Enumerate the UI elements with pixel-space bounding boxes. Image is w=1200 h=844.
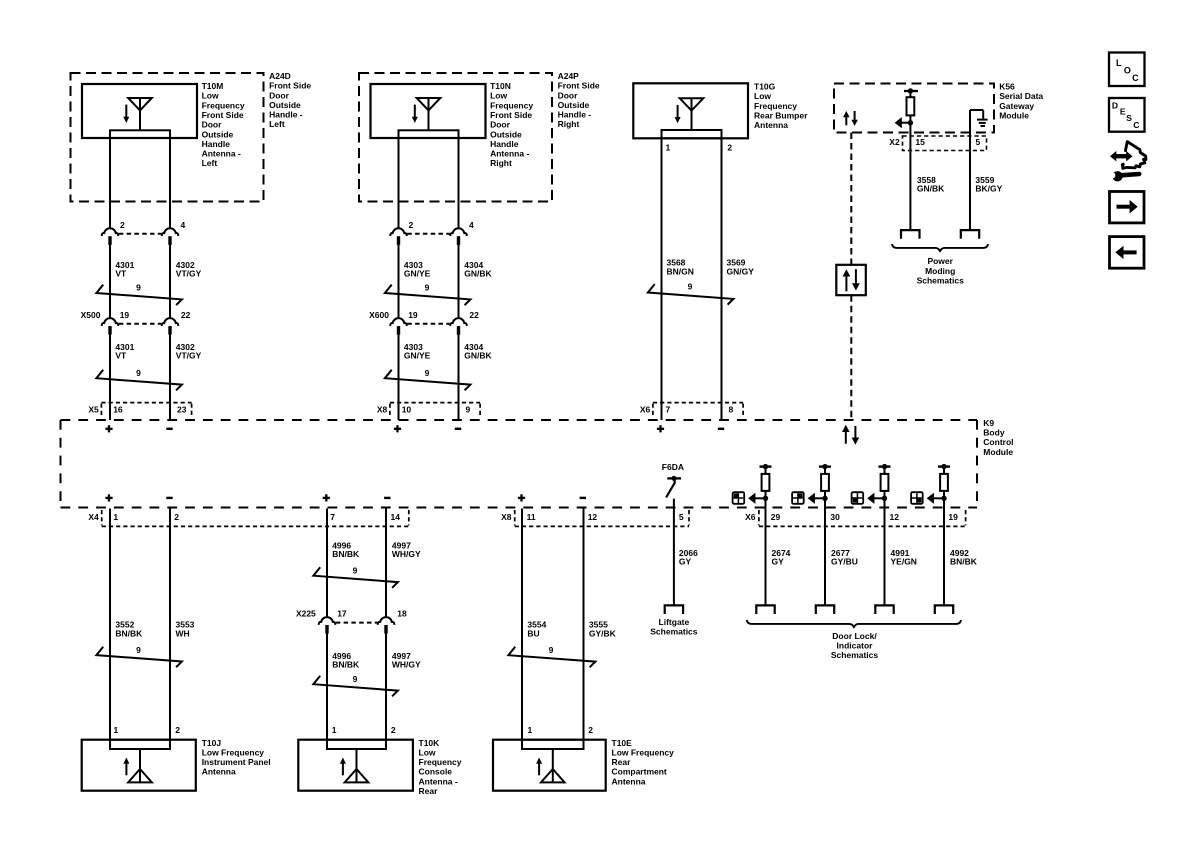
antenna T10E component box [493, 740, 606, 791]
svg-text:Outside: Outside [490, 129, 522, 139]
svg-text:Front Side: Front Side [558, 81, 600, 91]
off-page claw wire 4992 [935, 605, 953, 614]
antenna T10M symbol [128, 98, 152, 131]
svg-text:WH/GY: WH/GY [392, 549, 421, 559]
wire 4304 mid segment [458, 237, 460, 319]
svg-text:Handle -: Handle - [558, 110, 592, 120]
svg-text:1: 1 [666, 142, 671, 152]
svg-text:Door: Door [558, 90, 579, 100]
svg-text:GN/BK: GN/BK [464, 351, 492, 361]
svg-text:GN/YE: GN/YE [404, 269, 431, 279]
antenna T10J component box [82, 740, 196, 791]
wire 4996 upper segment [326, 509, 328, 618]
twisted pair symbol T10J [96, 645, 181, 667]
connector X6 pin box on K9 top [640, 403, 743, 417]
pin labels 1/2 T10J [114, 725, 181, 735]
label A24P [558, 71, 600, 129]
svg-text:23: 23 [177, 404, 187, 414]
wire 3559 label [975, 175, 1002, 194]
svg-text:GN/YE: GN/YE [404, 351, 431, 361]
wire 3569 segment [721, 138, 723, 420]
wire 4301 upper segment [109, 138, 111, 229]
svg-text:BN/BK: BN/BK [332, 660, 360, 670]
antenna T10N connector rect [399, 130, 459, 138]
label T10E [612, 738, 675, 787]
K9 branch arrow 1 [748, 493, 765, 504]
svg-text:2: 2 [120, 220, 125, 230]
svg-text:A24D: A24D [269, 71, 291, 81]
polarity markers X8 bottom [518, 494, 586, 501]
module box A24P dashed outline [359, 73, 552, 202]
svg-text:K9: K9 [983, 418, 994, 428]
antenna T10E connector rect [522, 740, 584, 749]
wire 3568 label [667, 258, 694, 277]
svg-text:GY/BU: GY/BU [831, 557, 858, 567]
polarity + marker [105, 425, 112, 432]
svg-text:Low: Low [490, 91, 507, 101]
polarity markers X4 [105, 494, 390, 501]
svg-text:GN/BK: GN/BK [464, 269, 492, 279]
icon box LOC [1109, 53, 1145, 87]
svg-text:X6: X6 [745, 512, 756, 522]
wire 4304 upper segment [458, 138, 460, 229]
wire 4992 label [950, 548, 978, 567]
brace power moding [892, 244, 988, 251]
svg-text:L: L [1116, 58, 1122, 68]
off-page claw wire 2066 [665, 605, 683, 614]
polarity + marker [394, 425, 401, 432]
K9 branch node bar 4 [938, 464, 950, 469]
svg-text:C: C [1133, 120, 1139, 130]
resistor in K9 branch 1 [762, 467, 770, 491]
svg-text:Front Side: Front Side [490, 110, 532, 120]
svg-text:8: 8 [729, 404, 734, 414]
label T10G [754, 82, 808, 131]
wire 3554 label [527, 620, 546, 639]
connector X600 row pins 19/22 [369, 310, 479, 335]
wire 4304 label [464, 260, 492, 279]
label K56 [999, 82, 1043, 121]
svg-text:VT: VT [115, 269, 127, 279]
svg-text:O: O [1124, 65, 1131, 75]
svg-text:Frequency: Frequency [490, 100, 533, 110]
off-page claw wire 3559 [961, 230, 979, 239]
wire 4997 lower label [392, 651, 421, 670]
connector cavity icon 2 [792, 492, 804, 504]
wire 4301 lower label [115, 342, 134, 361]
antenna T10G component box [633, 83, 748, 138]
svg-text:T10J: T10J [202, 738, 222, 748]
connector X6 pin box bottom [745, 510, 966, 526]
svg-text:Rear: Rear [419, 786, 439, 796]
wire 4302 lower segment [169, 326, 171, 420]
connector X500 row pins 19/22 [81, 310, 191, 335]
svg-text:Handle -: Handle - [269, 110, 303, 120]
wire 4303 label [404, 260, 431, 279]
module K9 dashed outline [61, 420, 978, 508]
svg-text:D: D [1112, 101, 1118, 111]
antenna T10N component box [371, 84, 486, 138]
connector cavity icon 3 [852, 492, 864, 504]
wire 3553 label [176, 620, 195, 639]
K9 branch arrow 2 [808, 493, 825, 504]
K9 branch node bar 1 [760, 464, 772, 469]
svg-text:Antenna -: Antenna - [202, 149, 241, 159]
pin labels 1/2 T10K [332, 725, 396, 735]
wire 4303 lower segment [398, 326, 400, 420]
wire 4997 upper segment [385, 509, 387, 618]
svg-text:2: 2 [727, 142, 732, 152]
connector X225 row pins 17/18 [296, 608, 407, 633]
wire 3553 segment [169, 509, 171, 740]
svg-text:7: 7 [666, 404, 671, 414]
svg-text:22: 22 [469, 310, 479, 320]
twisted pair symbol lower [385, 368, 471, 390]
antenna T10J signal arrow [123, 758, 129, 776]
connector cavity icon 4 [911, 492, 923, 504]
svg-text:BU: BU [527, 628, 539, 638]
wire 4302 upper segment [169, 138, 171, 229]
wire 4303 mid segment [398, 237, 400, 319]
svg-text:9: 9 [425, 283, 430, 293]
svg-text:14: 14 [391, 512, 401, 522]
label T10M [202, 81, 245, 168]
wire 4997 lower segment [385, 625, 387, 739]
svg-text:1: 1 [113, 512, 118, 522]
svg-text:15: 15 [915, 137, 925, 147]
icon box DESC [1109, 98, 1145, 132]
serial data dashed link upper [850, 133, 852, 265]
module K56 dashed box [834, 84, 994, 133]
twisted pair symbol [385, 283, 471, 305]
K9 branch node bar 3 [879, 464, 891, 469]
antenna T10M connector rect [110, 130, 170, 138]
pin labels 2 and 4 [120, 220, 186, 230]
off-page claw wire 4991 [875, 605, 893, 614]
svg-text:10: 10 [402, 404, 412, 414]
breaker F6DA [662, 462, 684, 497]
K9 branch arrow 4 [927, 493, 944, 504]
serial data double arrow at K9 [842, 425, 859, 445]
resistor in K9 branch 2 [821, 467, 829, 491]
svg-text:Outside: Outside [558, 100, 590, 110]
svg-text:22: 22 [181, 310, 191, 320]
connector X4 pin box [88, 510, 408, 526]
svg-text:Left: Left [202, 158, 218, 168]
svg-text:Left: Left [269, 119, 285, 129]
svg-text:9: 9 [549, 645, 554, 655]
svg-text:BN/BK: BN/BK [115, 628, 143, 638]
wire 3569 label [727, 258, 755, 277]
antenna T10M component box [82, 84, 197, 138]
pin labels 1/2 T10E [528, 725, 594, 735]
svg-text:17: 17 [337, 608, 347, 618]
svg-text:Frequency: Frequency [754, 101, 797, 111]
svg-text:BK/GY: BK/GY [975, 184, 1002, 194]
label K9 [983, 418, 1013, 457]
K9 branch node bar 2 [819, 464, 831, 469]
svg-text:Module: Module [999, 110, 1029, 120]
svg-text:T10G: T10G [754, 82, 776, 92]
polarity - marker T10G [718, 428, 724, 430]
label Liftgate Schematics [650, 617, 698, 637]
svg-text:Compartment: Compartment [612, 767, 667, 777]
svg-text:Door: Door [490, 120, 511, 130]
svg-text:X2: X2 [889, 137, 900, 147]
svg-text:11: 11 [527, 512, 536, 522]
svg-text:Low: Low [202, 91, 219, 101]
twisted pair symbol T10K lower [313, 674, 398, 696]
brace door lock [747, 620, 961, 627]
wire 4304 lower segment [458, 326, 460, 420]
antenna T10M signal arrow [123, 105, 129, 123]
svg-text:Door: Door [202, 120, 223, 130]
wire 3552 label [115, 620, 143, 639]
svg-text:Handle: Handle [202, 139, 231, 149]
svg-text:Outside: Outside [202, 129, 234, 139]
svg-text:BN/GN: BN/GN [667, 266, 694, 276]
svg-text:Outside: Outside [269, 100, 301, 110]
svg-text:BN/BK: BN/BK [332, 549, 360, 559]
svg-text:T10K: T10K [419, 738, 441, 748]
wire 3554 segment [521, 509, 523, 740]
svg-text:Serial Data: Serial Data [999, 91, 1043, 101]
svg-text:12: 12 [588, 512, 598, 522]
svg-text:1: 1 [528, 725, 533, 735]
wire 4302 lower label [176, 342, 202, 361]
serial data symbol box [836, 265, 866, 295]
svg-text:Antenna: Antenna [754, 120, 788, 130]
connector cavity icon 1 [733, 492, 745, 504]
icon vehicle diagnostic [1109, 142, 1146, 182]
K9 branch junction 1 [763, 496, 768, 501]
svg-text:2: 2 [175, 725, 180, 735]
svg-text:9: 9 [466, 404, 471, 414]
svg-text:9: 9 [136, 368, 141, 378]
svg-text:1: 1 [114, 725, 119, 735]
wire 3559 from K56 ground [969, 110, 971, 230]
svg-text:GN/GY: GN/GY [727, 266, 755, 276]
svg-text:S: S [1126, 113, 1132, 123]
svg-text:Liftgate: Liftgate [659, 617, 690, 627]
svg-text:12: 12 [890, 512, 900, 522]
wire 4301 mid segment [109, 237, 111, 319]
icon next arrow [1110, 192, 1145, 223]
serial data double arrow in K56 [843, 111, 858, 126]
wire 4991 label [891, 548, 917, 567]
ground in K56 [970, 110, 988, 126]
svg-text:Rear: Rear [612, 757, 632, 767]
antenna T10K symbol [345, 749, 369, 782]
wire 2066 label [679, 548, 698, 567]
connector X2 pin box [889, 136, 986, 151]
twisted pair symbol T10E [508, 645, 595, 667]
antenna T10K connector rect [327, 740, 386, 749]
wire 4303 lower label [404, 342, 431, 361]
svg-text:Schematics: Schematics [650, 626, 698, 636]
svg-text:Antenna -: Antenna - [490, 149, 529, 159]
wire 4302 mid segment [169, 237, 171, 319]
svg-text:2: 2 [409, 220, 414, 230]
label T10K [419, 738, 462, 796]
svg-text:X8: X8 [501, 512, 512, 522]
pin labels 1 and 2 of T10G [666, 142, 733, 152]
wire 4301 lower segment [109, 326, 111, 420]
antenna T10J connector rect [110, 740, 170, 749]
wire 3552 segment [109, 509, 111, 740]
svg-text:9: 9 [688, 282, 693, 292]
wire 4303 upper segment [398, 138, 400, 229]
wire 2677 segment [824, 491, 826, 606]
svg-text:Body: Body [983, 428, 1005, 438]
svg-text:Right: Right [490, 158, 512, 168]
svg-text:19: 19 [948, 512, 958, 522]
wire 3555 segment [583, 509, 585, 740]
svg-text:30: 30 [830, 512, 840, 522]
K9 branch junction 4 [941, 496, 946, 501]
svg-text:T10M: T10M [202, 81, 224, 91]
wire 3568 segment [661, 138, 663, 420]
svg-text:X4: X4 [88, 512, 99, 522]
svg-text:BN/BK: BN/BK [950, 557, 978, 567]
svg-text:F6DA: F6DA [662, 462, 684, 472]
svg-text:2: 2 [174, 512, 179, 522]
svg-text:WH: WH [176, 628, 190, 638]
antenna T10N symbol [417, 98, 441, 131]
wire 2674 label [772, 548, 791, 567]
wire 4301 label [115, 260, 134, 279]
wire 4996 lower label [332, 651, 360, 670]
K9 branch junction 2 [822, 496, 827, 501]
svg-text:C: C [1132, 73, 1139, 83]
svg-text:Console: Console [419, 767, 453, 777]
antenna T10E symbol [541, 749, 565, 782]
wire 3558 label [917, 175, 945, 194]
svg-text:9: 9 [136, 283, 141, 293]
svg-text:Low Frequency: Low Frequency [612, 747, 675, 757]
svg-text:Gateway: Gateway [999, 101, 1034, 111]
wire 4991 segment [884, 491, 886, 606]
wire 4304 lower label [464, 342, 492, 361]
wire 3558 from K56 [909, 115, 911, 230]
svg-text:9: 9 [353, 674, 358, 684]
svg-text:4: 4 [469, 220, 474, 230]
svg-text:WH/GY: WH/GY [392, 660, 421, 670]
off-page claw wire 2674 [756, 605, 774, 614]
svg-text:Power: Power [927, 256, 953, 266]
label Power Moding Schematics [917, 256, 965, 285]
svg-text:Door Lock/: Door Lock/ [832, 631, 877, 641]
label Door Lock Indicator Schematics [831, 631, 879, 660]
svg-text:Schematics: Schematics [831, 650, 879, 660]
polarity + marker T10G [657, 425, 664, 432]
module box A24D dashed outline [71, 73, 264, 202]
svg-text:Door: Door [269, 90, 290, 100]
svg-text:Module: Module [983, 447, 1013, 457]
wire 4992 segment [943, 491, 945, 606]
antenna T10E signal arrow [536, 758, 542, 776]
K9 branch junction 3 [882, 496, 887, 501]
svg-text:5: 5 [976, 137, 981, 147]
svg-text:Instrument Panel: Instrument Panel [202, 757, 271, 767]
resistor in K9 branch 3 [881, 467, 889, 491]
off-page claw wire 3558 [901, 230, 920, 239]
svg-text:GY: GY [679, 557, 692, 567]
svg-text:A24P: A24P [558, 71, 580, 81]
svg-text:GN/BK: GN/BK [917, 184, 945, 194]
resistor in K56 [907, 91, 915, 115]
svg-text:Low Frequency: Low Frequency [202, 747, 265, 757]
svg-text:K56: K56 [999, 82, 1015, 92]
svg-text:VT/GY: VT/GY [176, 269, 202, 279]
antenna T10J symbol [128, 749, 152, 782]
svg-text:5: 5 [679, 512, 684, 522]
antenna T10G connector rect [662, 130, 722, 138]
antenna T10K component box [298, 740, 413, 791]
label T10J [202, 738, 271, 777]
svg-text:Control: Control [983, 437, 1013, 447]
icon back arrow [1110, 237, 1145, 269]
svg-text:Frequency: Frequency [202, 100, 245, 110]
svg-text:9: 9 [353, 565, 358, 575]
svg-text:X8: X8 [377, 404, 388, 414]
svg-text:GY: GY [772, 557, 785, 567]
off-page claw wire 2677 [816, 605, 834, 614]
serial data dashed link lower [850, 295, 852, 419]
svg-text:Antenna: Antenna [202, 767, 236, 777]
wire 2677 label [831, 548, 858, 567]
svg-text:VT: VT [115, 351, 127, 361]
K9 branch arrow 3 [867, 493, 884, 504]
resistor in K9 branch 4 [940, 467, 948, 491]
svg-text:X225: X225 [296, 608, 316, 618]
svg-text:Front Side: Front Side [202, 110, 244, 120]
twisted pair symbol T10G [648, 282, 734, 305]
svg-text:7: 7 [330, 512, 335, 522]
svg-text:Low: Low [419, 747, 436, 757]
wire 2674 segment [765, 491, 767, 606]
label T10N [490, 81, 533, 168]
wire 4996 lower segment [326, 625, 328, 739]
svg-text:VT/GY: VT/GY [176, 351, 202, 361]
svg-text:Antenna -: Antenna - [419, 776, 458, 786]
wire 2066 segment [673, 499, 675, 606]
connector row pins 2/4 [102, 228, 178, 245]
svg-text:X500: X500 [81, 310, 101, 320]
svg-text:YE/GN: YE/GN [891, 557, 917, 567]
wire 4302 label [176, 260, 202, 279]
label A24D [269, 71, 311, 129]
svg-text:T10N: T10N [490, 81, 511, 91]
svg-text:4: 4 [181, 220, 186, 230]
polarity - marker [455, 428, 461, 430]
svg-text:19: 19 [408, 310, 418, 320]
K56 internal node bar [904, 88, 918, 93]
svg-text:9: 9 [136, 645, 141, 655]
svg-text:Schematics: Schematics [917, 276, 965, 286]
svg-text:Front Side: Front Side [269, 81, 311, 91]
connector X8 pin box on K9 [377, 403, 480, 417]
svg-text:Indicator: Indicator [837, 640, 874, 650]
wire 4996 upper label [332, 540, 360, 559]
connector X5 pin box on K9 [88, 403, 191, 417]
twisted pair symbol [96, 283, 181, 305]
K56 output arrow [895, 117, 914, 128]
connector row pins 2/4 [390, 228, 466, 245]
wire 4997 upper label [392, 540, 421, 559]
svg-text:T10E: T10E [612, 738, 633, 748]
svg-text:29: 29 [771, 512, 781, 522]
